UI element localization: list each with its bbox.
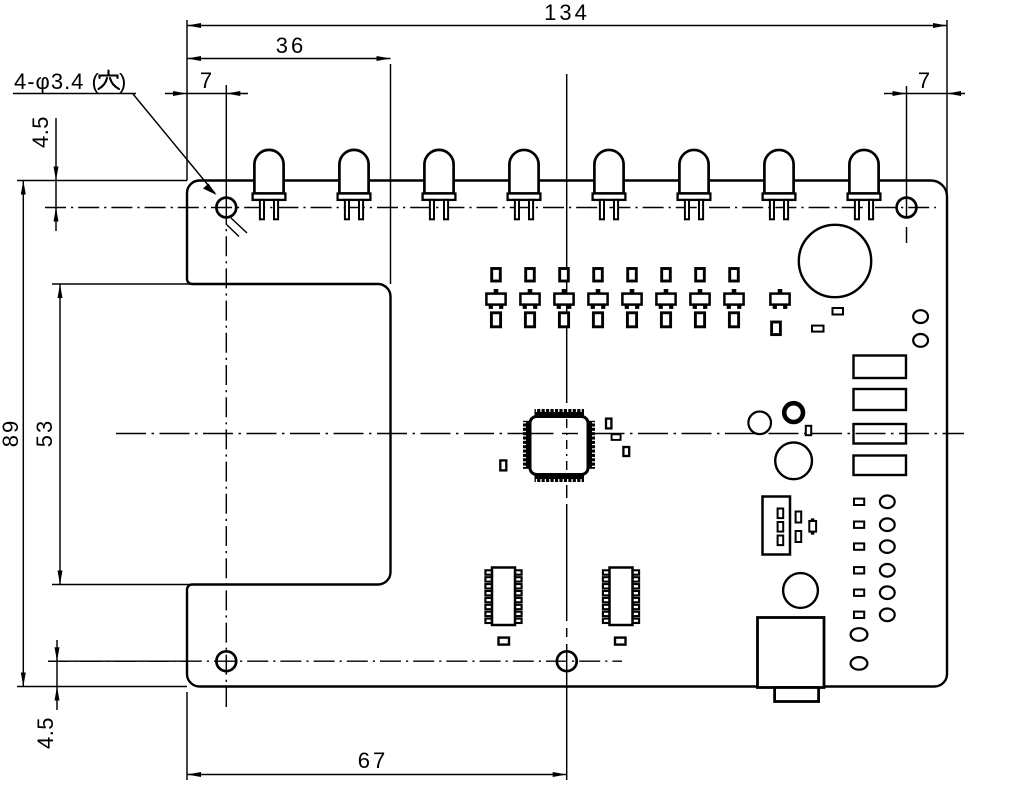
node kanji ana (hole) [99,71,120,90]
node electrolytic capacitor C8 [783,573,818,608]
LED D3 [423,150,456,219]
transistor Q2 (SOT-23) [520,289,539,309]
pad P9 oval [851,628,868,641]
svg-text:4-φ3.4 (: 4-φ3.4 ( [14,69,100,94]
dimension 36 [390,64,392,284]
resistor R5 (top chip) [628,269,637,282]
resistor R25 [854,499,864,505]
dimension 53 left [52,283,191,285]
node J1 pin 2 [778,522,784,532]
connector J1 (3-pin header) [763,497,791,555]
wire PCB board outline with notch [187,181,947,687]
resistor R15 (bottom chip) [627,313,636,327]
resistor R13 (bottom chip) [559,313,568,327]
node mounting hole bottom-middle 3.4mm [557,651,577,671]
capacitor C2 [500,460,506,470]
transistor Q4 (SOT-23) [588,289,607,309]
capacitor C6 [499,638,510,645]
transistor Q5 (SOT-23) [622,289,641,309]
resistor R28 [854,567,864,573]
transistor Q3 (SOT-23) [554,289,573,309]
dimension 7 right [884,93,965,95]
node J1 pin 1 [778,509,784,519]
pad P8 oval [880,609,895,622]
capacitor C4 [612,434,621,440]
dimension 67 bottom [186,692,188,780]
dimension 4.5 bottom left [48,660,187,662]
node vertical centerline x=906.5 through right hole [906,86,908,216]
transistor Q7 (SOT-23) [690,289,709,309]
node mounting hole top-right 3.4mm [897,198,917,218]
resistor R4 (top chip) [594,269,603,282]
node top hole centerline y=207.5 [45,207,936,209]
pad P2 oval [913,334,928,347]
resistor R3 (top chip) [560,269,569,282]
op-amp U1 (QFP-44 micro) [523,409,595,482]
connector J2 (DC jack) [758,618,825,688]
capacitor C9 [806,426,811,435]
capacitor C3 [606,419,611,429]
resistor R30 [854,612,864,618]
LED D7 [763,150,796,219]
svg-text:4.5: 4.5 [33,717,58,749]
node vertical centerline x=566.7 (67 dim extension) [566,74,568,390]
resistor R24 [796,531,802,542]
transistor Q10 [809,518,816,534]
resistor R22 [812,326,824,332]
resistor R8 (top chip) [730,269,739,282]
resistor R1 (top chip) [492,269,501,282]
LED D2 [338,150,371,219]
node mounting hole top-left 3.4mm [216,198,236,218]
capacitor C5 [623,447,629,456]
resistor R23 [796,512,802,523]
pad P1 oval [913,310,928,323]
svg-text:67: 67 [358,748,388,773]
resistor RN4 (array) [854,456,907,476]
node mounting hole bottom-left 3.4mm [216,651,236,671]
resistor RN2 (array) [854,389,907,410]
resistor R29 [854,590,864,596]
svg-text:134: 134 [544,0,590,25]
resistor R2 (top chip) [526,269,535,282]
node J1 pin 3 [778,536,784,546]
pad P5 oval [880,540,895,553]
svg-text:7: 7 [200,68,212,93]
resistor R12 (bottom chip) [525,313,534,327]
capacitor C7 [615,638,626,645]
LED D8 [848,150,881,219]
dimension 134 top [186,20,188,181]
node vertical centerline x=226.3 through left holes [225,85,227,204]
transistor Q8 (SOT-23) [724,289,743,309]
node via hole V1 [748,412,771,435]
resistor R6 (top chip) [662,269,671,282]
resistor RN1 (array) [854,356,907,379]
resistor R17 (bottom chip) [695,313,704,327]
pad P3 oval [880,496,895,509]
op-amp U2 (SOIC-16) [485,568,521,626]
LED D5 [593,150,626,219]
resistor R27 [854,543,864,549]
resistor R20 [833,308,844,315]
pad P6 oval [880,564,895,577]
node bottom hole centerline y=661 [48,660,622,662]
transistor Q1 (SOT-23) [486,289,505,309]
resistor R16 (bottom chip) [661,313,670,327]
svg-text:89: 89 [0,419,23,447]
node electrolytic capacitor C10 [775,442,812,479]
resistor R18 (bottom chip) [729,313,738,327]
svg-text:4.5: 4.5 [28,116,53,148]
pad P10 oval [851,657,868,670]
capacitor C1 (large can) [799,225,871,297]
resistor R7 (top chip) [696,269,705,282]
resistor R19 (chip below Q9) [772,322,781,335]
resistor R26 [854,522,864,528]
node via hole V2 (thick ring) [784,403,803,422]
svg-text:7: 7 [918,68,930,93]
resistor R14 (bottom chip) [593,313,602,327]
svg-text:): ) [119,69,126,94]
pad P4 oval [880,518,895,531]
dimension 4.5 top left [17,180,187,182]
op-amp U3 (SOIC-16) [603,568,639,626]
svg-text:36: 36 [276,33,306,58]
LED D1 [253,150,286,219]
transistor Q6 (SOT-23) [656,289,675,309]
resistor R11 (bottom chip) [491,313,500,327]
resistor RN3 (array) [854,424,907,444]
dimension 7 left [165,93,248,95]
transistor Q9 (SOT-23) [770,289,789,309]
LED D4 [508,150,541,219]
pad P7 oval [880,586,895,599]
LED D6 [678,150,711,219]
node horizontal main centerline y=433.5 [116,433,964,435]
dimension 89 left [17,686,187,688]
svg-text:53: 53 [32,419,57,447]
